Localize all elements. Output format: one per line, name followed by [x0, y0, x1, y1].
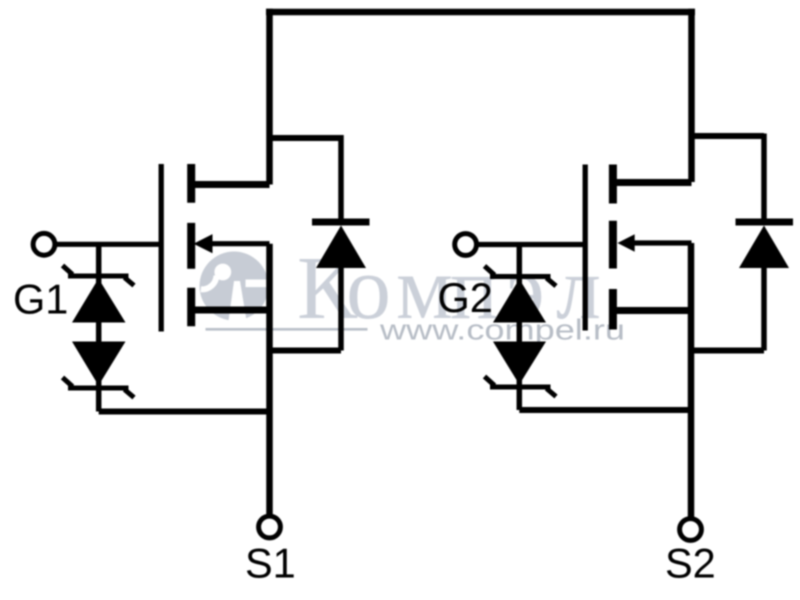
- svg-text:S1: S1: [245, 540, 296, 587]
- wire source S2 vertical: [688, 243, 695, 518]
- zener Z1a cathode bar: [63, 266, 135, 286]
- wire D2 to source node: [692, 348, 765, 354]
- zener Z2b cathode bar: [485, 377, 557, 397]
- transistor Q1 gate line: [159, 164, 164, 332]
- diode D1 cathode bar: [312, 219, 370, 226]
- transistor Q2 source lead: [613, 307, 691, 314]
- transistor Q1 body arrow: [194, 234, 213, 253]
- wire D1 bottom vertical: [338, 266, 344, 351]
- wire zener string Z2 vertical: [517, 245, 523, 411]
- wire G2 to gate: [478, 242, 586, 247]
- transistor Q1 drain lead: [191, 181, 269, 188]
- wire top rail: [266, 9, 695, 16]
- wire D1 to source node: [270, 348, 342, 354]
- transistor Q2 drain lead: [613, 179, 691, 186]
- terminal S1 circle: [259, 516, 281, 538]
- wire jog to D1: [270, 135, 342, 141]
- diode D1 triangle: [316, 226, 366, 269]
- wire D2 top vertical: [761, 134, 767, 226]
- wire zener string Z1 vertical: [96, 244, 102, 411]
- zener Z1b cathode bar: [63, 378, 135, 398]
- transistor Q2 channel segments: [609, 165, 617, 330]
- watermark logo disc: [200, 252, 271, 321]
- wire zener bottom to source node right: [519, 407, 691, 413]
- transistor Q2 body lead: [630, 240, 692, 245]
- watermark underline: [206, 328, 368, 331]
- transistor Q1 body lead: [207, 241, 270, 246]
- wire zener bottom to source node: [99, 409, 270, 415]
- zener Z1b triangle: [72, 342, 126, 386]
- svg-text:G1: G1: [13, 276, 68, 323]
- diode D2 triangle: [739, 226, 789, 269]
- terminal G1 circle: [33, 233, 55, 255]
- wire right drain vertical: [688, 9, 695, 182]
- wire source S1 vertical: [266, 244, 273, 515]
- diode D2 cathode bar: [736, 219, 794, 226]
- zener Z2b triangle: [493, 342, 546, 385]
- zener Z1a triangle: [72, 279, 126, 323]
- wire G1 to gate: [56, 242, 162, 247]
- transistor Q2 body arrow: [618, 234, 635, 252]
- wire left drain vertical: [266, 9, 273, 185]
- svg-text:S2: S2: [665, 540, 716, 587]
- wire D2 bottom vertical: [761, 266, 767, 351]
- svg-text:G2: G2: [438, 274, 493, 321]
- transistor Q1 channel segments: [187, 164, 195, 326]
- wire jog to D2: [692, 133, 765, 139]
- wire D1 top vertical: [338, 135, 344, 225]
- zener Z2a triangle: [493, 279, 546, 323]
- terminal G2 circle: [455, 234, 477, 256]
- transistor Q1 source lead: [191, 307, 269, 314]
- terminal S2 circle: [680, 519, 702, 541]
- zener Z2a cathode bar: [485, 266, 557, 286]
- transistor Q2 gate line: [583, 165, 588, 331]
